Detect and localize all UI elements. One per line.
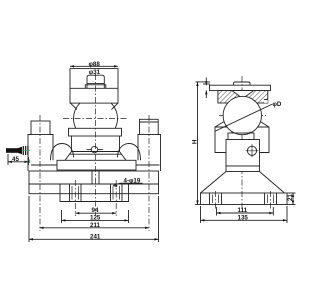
- dome right: [118, 144, 141, 161]
- centerline right pillar: [148, 115, 150, 231]
- bottom hole hatch marks: [72, 186, 120, 200]
- load button cap: [87, 75, 104, 88]
- svg-text:45: 45: [12, 156, 19, 163]
- cable cone: [18, 147, 23, 154]
- flange hole hatch marks: [213, 195, 274, 204]
- saddle hatched block: [218, 91, 268, 103]
- bottom hole right walls: [111, 184, 123, 202]
- cup inner line 2: [69, 153, 122, 155]
- svg-text:H: H: [192, 139, 199, 144]
- base flange: [201, 193, 288, 205]
- flange hole left walls: [210, 193, 222, 205]
- cable gland rings: [23, 146, 28, 155]
- cup body walls: [71, 136, 73, 152]
- left pillar cap: [31, 121, 50, 135]
- top plate mid line: [70, 87, 118, 89]
- body step: [226, 166, 260, 172]
- flange hole right walls: [265, 193, 277, 205]
- dim 45: [8, 154, 29, 165]
- centerline bottom hole right: [115, 180, 117, 216]
- cup inner line 1: [72, 151, 120, 153]
- leader 4-phi19: [113, 183, 143, 187]
- svg-text:125: 125: [90, 215, 101, 222]
- dome left: [51, 144, 74, 161]
- dim plate thickness: [203, 78, 210, 99]
- dim 125: [62, 210, 129, 223]
- centerline ball horizontal left view: [63, 118, 128, 120]
- green artifact tick: [29, 160, 31, 164]
- top boss: [234, 82, 251, 85]
- skirt slant left: [201, 172, 227, 194]
- bottom hole left walls: [70, 184, 82, 202]
- front hole circle: [91, 146, 97, 152]
- front hole tick left: [87, 149, 92, 151]
- base plate: [57, 160, 136, 170]
- centerline bottom hole left: [74, 180, 76, 216]
- centerline flange hole left: [215, 191, 217, 209]
- anchor slot: [92, 172, 99, 184]
- base frame: [29, 171, 159, 194]
- seat slant right: [112, 103, 119, 109]
- svg-text:4-φ19: 4-φ19: [124, 178, 141, 185]
- load button mid line: [87, 83, 104, 85]
- wing right: [251, 121, 269, 153]
- right pillar cap: [140, 119, 159, 134]
- centerline main vertical left view: [40, 74, 149, 231]
- skirt slant right: [260, 172, 285, 194]
- screw cross: [246, 144, 258, 157]
- cup flange slant left: [65, 152, 72, 161]
- screw circle: [247, 146, 256, 155]
- svg-text:21: 21: [287, 194, 294, 201]
- saddle V notch: [232, 91, 254, 99]
- centerline ball horizontal right view: [219, 115, 266, 117]
- pillar step line left: [31, 164, 57, 166]
- seat slant left: [70, 103, 77, 109]
- pillar step line right: [136, 164, 160, 166]
- svg-text:94: 94: [92, 207, 99, 214]
- cup upper rect: [69, 128, 122, 136]
- left pillar body: [28, 135, 53, 172]
- dim 111: [217, 207, 274, 216]
- neck walls: [232, 132, 250, 134]
- shoulder block: [228, 133, 254, 140]
- dim 94: [75, 212, 116, 214]
- dim 135: [201, 206, 288, 223]
- centerline left pillar: [39, 115, 41, 231]
- ball (front view): [74, 103, 118, 128]
- wing left: [215, 121, 233, 153]
- centerline main vertical right view: [216, 76, 271, 210]
- dim 21 right: [287, 193, 296, 205]
- dim 211: [40, 227, 150, 229]
- main body: [226, 140, 260, 167]
- svg-text:φ88: φ88: [89, 61, 101, 68]
- base frame inner line: [29, 183, 159, 185]
- svg-text:111: 111: [238, 207, 248, 214]
- svg-text:241: 241: [90, 233, 101, 240]
- saddle corner tab right: [264, 100, 268, 103]
- svg-text:211: 211: [90, 222, 101, 229]
- centerline flange hole right: [270, 191, 272, 209]
- dim height H: [195, 82, 210, 205]
- cup flange slant right: [120, 152, 127, 161]
- leader phiD: [215, 104, 273, 132]
- dim phi88: [70, 65, 118, 67]
- svg-text:φ31: φ31: [89, 69, 101, 76]
- ball (side view): [223, 96, 261, 134]
- svg-text:φD: φD: [273, 101, 282, 108]
- centerline screw: [245, 150, 259, 152]
- top plate block: [70, 69, 118, 104]
- bottom plate: [60, 184, 129, 202]
- top plate: [210, 85, 271, 90]
- cable black segment: [6, 148, 18, 153]
- load button collar: [85, 85, 106, 89]
- gland green line: [22, 150, 30, 152]
- dim 241: [29, 196, 159, 242]
- front hole tick right: [98, 149, 103, 151]
- svg-text:135: 135: [238, 215, 249, 222]
- right pillar body: [138, 135, 161, 172]
